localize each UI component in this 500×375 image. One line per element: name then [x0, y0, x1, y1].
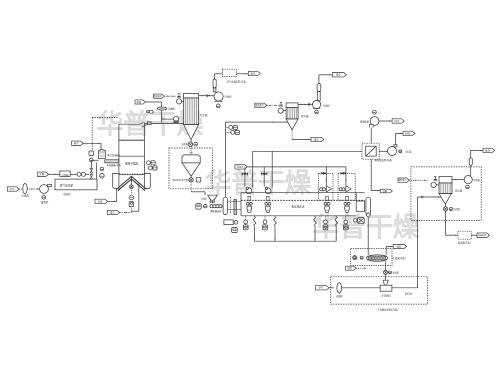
air filter 2 [336, 283, 343, 298]
C2 pulse fan [278, 108, 286, 113]
bed nozzle unit 3 [324, 196, 330, 212]
blower drain [42, 195, 46, 199]
hopper H2 [201, 195, 217, 203]
steam valve box [89, 151, 94, 156]
flag steam [72, 141, 84, 145]
bed drain unit 3 [323, 216, 328, 232]
svg-text:引风机: 引风机 [322, 103, 330, 107]
wire blowdown dashed [120, 212, 132, 213]
wire C2 to fan2 [298, 103, 312, 106]
spray drop 2 [341, 167, 347, 186]
bed downspout 4 [335, 216, 338, 241]
humid fan K4 [360, 117, 379, 128]
flag cool air [346, 266, 357, 270]
C2 dust out [292, 130, 311, 140]
filter box [60, 171, 70, 177]
bed feed band [234, 199, 237, 214]
wire feed [145, 102, 161, 107]
wire to vent flag 1 [236, 73, 248, 74]
roots blower [380, 285, 392, 297]
wire C1 to fan1 [199, 94, 215, 97]
wash pump 2 [265, 187, 271, 194]
scrubber column 2 [271, 151, 273, 187]
H1 side box [196, 177, 201, 182]
wire induced draft [108, 189, 117, 202]
wire K3 exhaust [396, 133, 404, 145]
tower internal line 2 [119, 155, 145, 157]
bed nozzle unit 2 [265, 196, 271, 212]
flag vent 4 [392, 119, 404, 123]
wire C1 to hopper [190, 147, 193, 155]
flag vent 3 [403, 131, 415, 135]
wire HR to fan [379, 150, 387, 152]
wash pump 1 [246, 187, 252, 194]
C1 pulse valve [178, 94, 181, 98]
heater drain 1 [100, 167, 104, 171]
capsule valve [366, 213, 370, 218]
tower skirt right leg [144, 173, 151, 188]
flag wash water [235, 165, 247, 169]
wire cooler outlet flag [386, 246, 393, 255]
C3 rotary valve [443, 204, 460, 211]
K4 motor [373, 110, 377, 114]
wire collection line [255, 240, 337, 242]
wire bed exhaust riser [370, 159, 372, 190]
flag product pack [477, 233, 490, 238]
bed body [241, 193, 356, 216]
svg-text:除尘器: 除尘器 [200, 113, 208, 117]
wire steam header [83, 143, 101, 150]
K1 outlet duct [213, 88, 216, 92]
scrubber column 1 [252, 151, 254, 187]
flag cooler out [393, 244, 406, 248]
svg-text:排空: 排空 [405, 131, 411, 135]
cooling bed [367, 255, 406, 261]
C3 pulse valve [434, 177, 437, 181]
svg-text:至料仓: 至料仓 [405, 291, 413, 295]
screw motor [196, 204, 207, 210]
flag steam C3 [398, 178, 409, 182]
feed filter F1 [157, 107, 175, 111]
wire rotors to valve column [86, 173, 90, 175]
wire cool air [356, 267, 366, 268]
wire wash header [247, 166, 346, 168]
wire air2 [329, 287, 334, 289]
wire heater tee [91, 160, 98, 162]
bypass valve 1 [90, 168, 93, 173]
bed nozzle unit 1 [246, 196, 252, 212]
spray nozzle 1 [320, 186, 332, 192]
wire filterbox to rotors [70, 173, 77, 175]
bed feed capsule [223, 197, 227, 214]
bed drain unit 2 [263, 216, 268, 232]
wire filter2 to blower [342, 287, 381, 289]
flag cold air [38, 172, 49, 176]
wire filter to blower [27, 188, 39, 189]
HR exchanger [366, 146, 393, 162]
tower internal line 1 [119, 139, 145, 140]
wire cooler to rotary [385, 261, 387, 270]
dashed control line [92, 117, 118, 143]
exhaust fan K1 [214, 92, 232, 101]
wash drop 1 [242, 167, 248, 187]
tower bed surface line [119, 173, 145, 175]
K5 drain [466, 185, 470, 189]
bed downspout 1 [253, 216, 256, 241]
cooler motor [353, 256, 364, 260]
K2 drain [315, 110, 319, 114]
wire capsule to bed [228, 197, 242, 214]
flag blowdown [107, 210, 119, 214]
wire blower out [392, 288, 418, 296]
wire steam C3 [409, 179, 429, 180]
duct instruments [226, 125, 240, 134]
C2 pulse valve [280, 102, 283, 106]
svg-text:气力输送系统(可选): 气力输送系统(可选) [377, 308, 398, 312]
heater drain 2 [100, 174, 105, 179]
H1 rotary valve [173, 176, 194, 182]
flag vent 2 [332, 73, 346, 77]
fan K5 [464, 176, 480, 184]
bed drain unit 4 [343, 216, 348, 232]
bed distributor [241, 199, 365, 201]
bed nozzle unit 4 [344, 196, 350, 212]
watermark 1 [97, 109, 205, 140]
svg-text:空气: 空气 [9, 187, 15, 191]
wire furnace riser [96, 163, 98, 179]
hopper H1 [182, 155, 200, 176]
air filter lens [21, 184, 29, 198]
svg-text:排空: 排空 [250, 71, 256, 75]
watermark 3 [313, 212, 421, 243]
HR optional box [362, 143, 379, 159]
wire feed pump line [162, 118, 174, 120]
optional damper box [222, 69, 246, 83]
hot air furnace [55, 179, 97, 196]
flag steam C2 [255, 103, 267, 107]
C1 pulse fan [177, 99, 184, 104]
wire C3 to screen [446, 211, 459, 236]
svg-text:燃气热风炉: 燃气热风炉 [60, 183, 74, 187]
tower instruments [147, 161, 157, 170]
wire valve column [90, 162, 92, 180]
wash drop 2 [261, 167, 267, 187]
flag blowdown 2 [311, 137, 324, 141]
svg-text:除尘器: 除尘器 [301, 114, 309, 118]
tower skirt left leg [113, 173, 120, 188]
flag vent 1 [248, 71, 260, 75]
flag product out [380, 189, 392, 193]
screw conveyor [210, 205, 222, 213]
spray drop 1 [321, 167, 327, 186]
C1 rotary valve [188, 140, 193, 147]
wire steam C1 [164, 95, 176, 96]
svg-text:沸腾干燥器: 沸腾干燥器 [125, 161, 138, 165]
flag steam C1 [153, 94, 164, 98]
svg-text:华普干燥: 华普干燥 [205, 168, 313, 199]
bed label [292, 205, 305, 209]
steam trap drain [89, 158, 93, 162]
flag air 2 [315, 286, 329, 290]
wire discharge flag [371, 190, 380, 191]
cooler rotary valve [383, 270, 399, 274]
wire feed 2 [161, 110, 162, 124]
wire rotary to funnel [385, 275, 387, 281]
svg-text:热风炉: 热风炉 [63, 192, 71, 196]
bed hood top [241, 192, 365, 194]
tower inner cone [116, 173, 146, 190]
svg-text:冷风: 冷风 [39, 172, 45, 176]
svg-text:排污: 排污 [314, 137, 320, 141]
svg-text:蒸汽加热器: 蒸汽加热器 [107, 153, 120, 157]
HR fan K3 [388, 145, 397, 156]
wire flag to filter [19, 188, 23, 190]
mini optional box [411, 167, 481, 221]
K2 silencer [317, 84, 321, 92]
spray optional box 2 [338, 173, 355, 200]
bed vibration motor [354, 218, 365, 224]
steam heater E1 [99, 150, 121, 159]
conveying optional box [331, 277, 428, 312]
C1 rotary drain [181, 142, 197, 146]
K2 outlet duct [318, 92, 321, 101]
bag filter C3 [439, 177, 463, 205]
flag air inlet [7, 187, 19, 191]
optional box 1 [169, 148, 212, 189]
flag vent 5 [483, 148, 495, 152]
wire capsule to cooler [367, 217, 369, 254]
wire K2 exhaust [319, 74, 333, 83]
svg-text:引风机: 引风机 [224, 95, 232, 99]
wire K4 exhaust [379, 120, 392, 121]
bed downspout 3 [314, 216, 317, 241]
feed instrument [147, 110, 153, 113]
wire tower outlet duct [145, 122, 184, 125]
tower label [125, 161, 138, 165]
svg-text:排空: 排空 [336, 73, 342, 77]
wire H1 down [191, 182, 205, 195]
wire K1 exhaust [215, 74, 223, 79]
feed lance [142, 122, 152, 127]
electric heater E2 [105, 160, 122, 167]
tower bottom chain [129, 176, 134, 212]
blower funnel [383, 280, 388, 285]
bed end box [356, 201, 364, 211]
wire main duct [253, 150, 362, 152]
wire coldair to filterbox [49, 174, 60, 175]
rotor 1 [77, 172, 81, 176]
svg-text:引风: 引风 [97, 199, 103, 203]
dashed steam branch [91, 143, 93, 151]
cooler optional box [351, 249, 392, 266]
K1 silencer [213, 79, 216, 88]
wire tower drain [131, 183, 138, 211]
K5 silencer [469, 150, 472, 176]
wire screen to flag [471, 234, 477, 236]
flag induced draft [95, 199, 108, 203]
wire conveying riser [417, 197, 419, 288]
rotor 2 [82, 172, 86, 176]
tower body [119, 123, 145, 174]
screen box [458, 231, 471, 245]
watermark 2 [205, 168, 313, 199]
K3 drain [399, 149, 412, 153]
wire C3 to fan5 [452, 179, 465, 180]
svg-text:排空: 排空 [394, 119, 400, 123]
svg-text:振动流化床: 振动流化床 [292, 205, 305, 209]
bag filter C1 [184, 93, 208, 139]
exhaust fan K2 [313, 100, 331, 108]
svg-text:蒸汽: 蒸汽 [74, 141, 80, 145]
svg-text:过滤器: 过滤器 [21, 194, 29, 198]
bed drain unit 1 [243, 216, 248, 232]
wire K5 exhaust [471, 150, 483, 151]
wire recycle duct [226, 121, 288, 197]
bag filter C2 [286, 103, 309, 130]
svg-text:空气: 空气 [319, 286, 324, 290]
spray nozzle 2 [339, 186, 351, 192]
svg-text:鼓风机: 鼓风机 [41, 200, 49, 204]
feed pump P1 [174, 117, 179, 123]
bypass valve 2 [90, 175, 93, 180]
svg-text:排空: 排空 [485, 148, 491, 152]
bed downspout 2 [274, 216, 277, 241]
bed discharge capsule [366, 197, 371, 215]
blower B1 [40, 184, 52, 204]
C3 pulse fan [431, 182, 439, 187]
wire steam C2 [267, 105, 280, 106]
svg-text:料液: 料液 [137, 100, 142, 104]
wire HR to fan4 riser [370, 128, 372, 144]
flag feed liquid [135, 100, 145, 104]
wire conveying to C3 [418, 196, 441, 199]
K1 drain [216, 104, 220, 108]
svg-text:排污: 排污 [110, 210, 116, 214]
spray optional box 1 [319, 173, 333, 200]
bed blower unit [224, 220, 238, 233]
